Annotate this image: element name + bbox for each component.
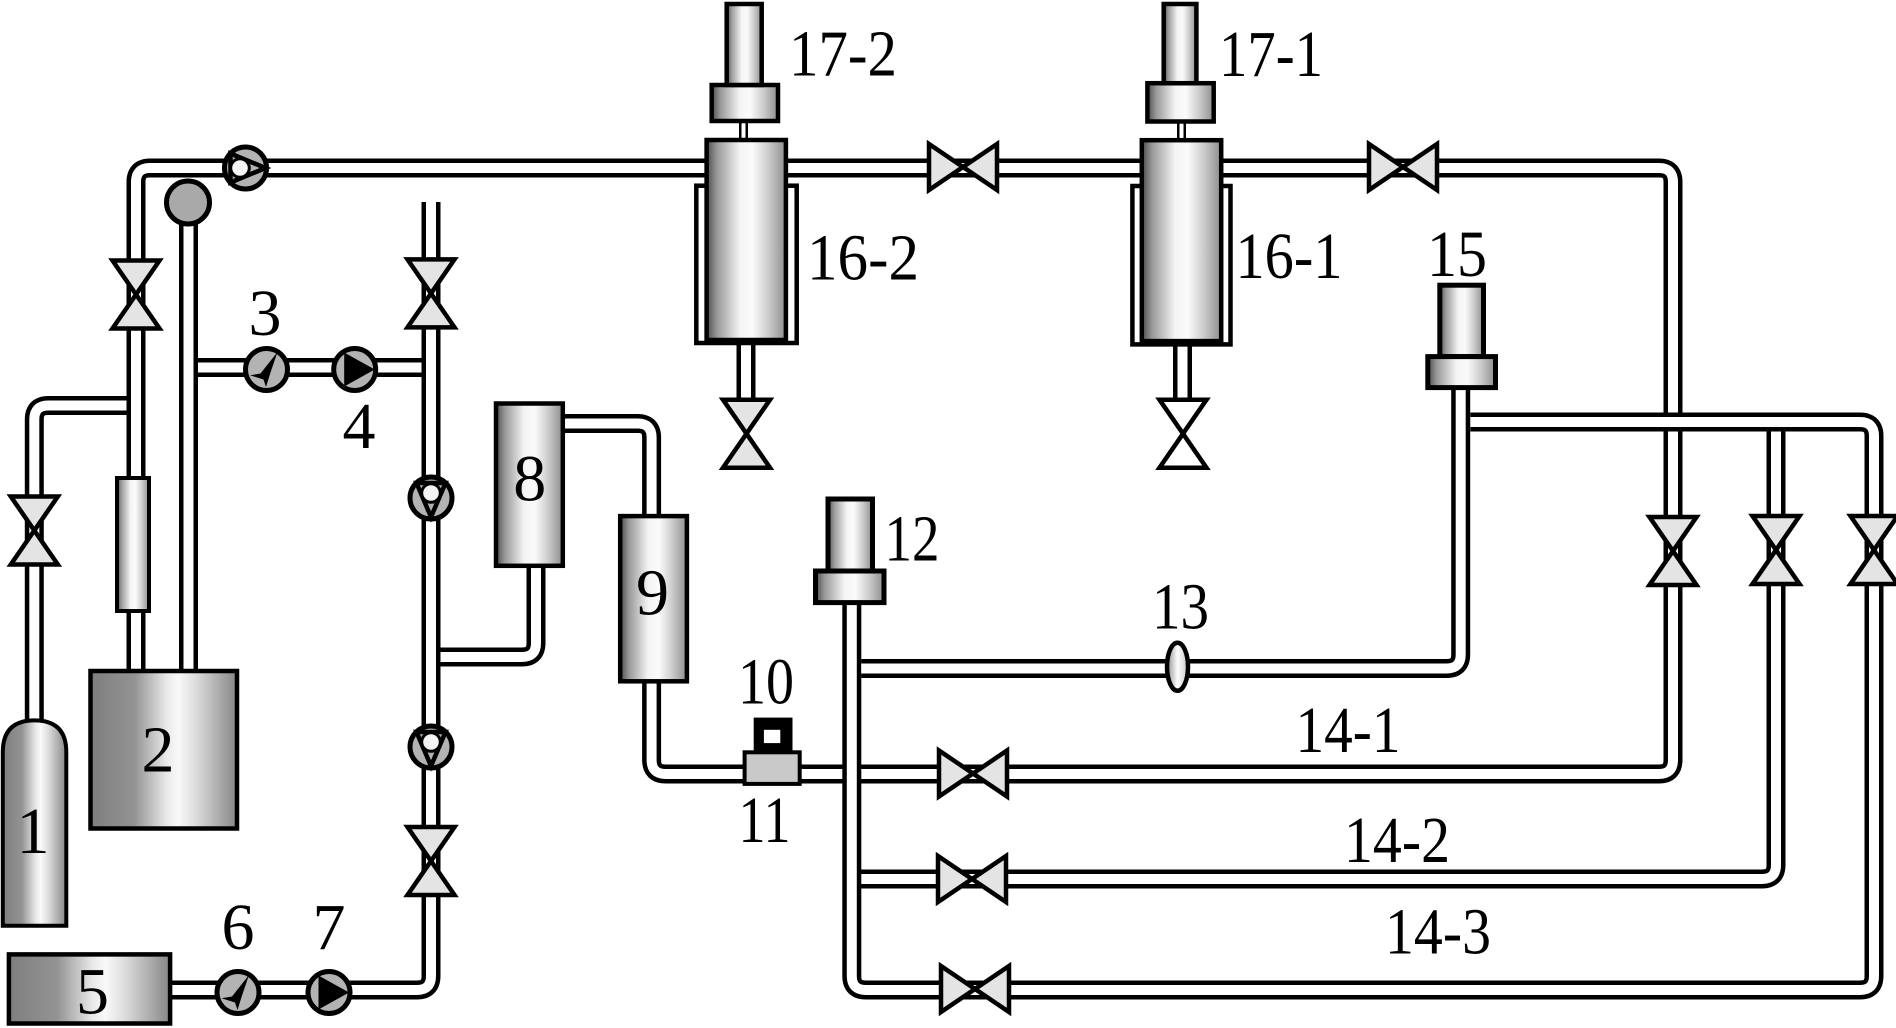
wire drain stub of reactor 16-1 <box>1173 330 1192 400</box>
plug 12 stem <box>828 499 873 571</box>
valve on line 14-1 <box>939 751 1007 797</box>
svg-text:16-1: 16-1 <box>1236 220 1343 293</box>
valve on riser x1874 <box>1851 516 1896 584</box>
plug 12 flange <box>816 571 885 603</box>
jacket of reactor 16-2 <box>696 186 796 343</box>
valve on line 14-3 <box>941 966 1009 1012</box>
wire drain stub of reactor 16-2 <box>737 330 756 400</box>
plug 15 stem <box>1440 285 1484 356</box>
svg-text:10: 10 <box>738 645 794 718</box>
valve on riser x1673 <box>1650 517 1697 585</box>
vessel 9 <box>620 516 687 681</box>
gray ball on tank 2 line <box>167 181 210 224</box>
svg-text:17-1: 17-1 <box>1219 18 1323 91</box>
svg-text:14-1: 14-1 <box>1296 694 1401 767</box>
sight glass on tank 2 feed <box>117 478 149 611</box>
cap of reactor 16-1 <box>1147 83 1213 121</box>
drain valve of reactor 16-1 <box>1160 400 1207 468</box>
svg-text:1: 1 <box>17 795 50 868</box>
wire column x431 from stub to vessel 5 <box>166 202 431 990</box>
svg-text:13: 13 <box>1152 571 1209 644</box>
check valve on top header <box>225 147 267 189</box>
svg-text:12: 12 <box>885 502 940 575</box>
wire 14-2 line <box>854 428 1776 879</box>
svg-text:17-2: 17-2 <box>789 18 897 91</box>
plug 15 flange <box>1428 357 1496 388</box>
reactor 16-1 body <box>1142 140 1221 341</box>
pump 4 <box>334 349 376 391</box>
wire main loop: tank 2, top header, drop right, 14-1 line to vessel 9 <box>136 168 1673 774</box>
svg-text:15: 15 <box>1427 218 1487 291</box>
sensor 10 <box>754 718 793 753</box>
pressure gauge 3 <box>246 349 288 391</box>
wire vessel 8 to vessel 9 <box>556 424 652 536</box>
jacket of reactor 16-1 <box>1132 186 1230 344</box>
svg-text:16-2: 16-2 <box>807 222 919 295</box>
block 11 <box>745 752 800 784</box>
svg-text:14-3: 14-3 <box>1385 895 1491 968</box>
tank 2 <box>91 671 238 829</box>
orifice 13 <box>1167 643 1188 691</box>
gas cylinder 1 <box>3 720 67 925</box>
check valve upper on column x431 <box>410 477 452 519</box>
valve right of reactor 16-1 <box>1369 144 1437 190</box>
valve between reactors <box>929 144 997 190</box>
svg-text:5: 5 <box>76 956 109 1028</box>
svg-text:9: 9 <box>636 557 669 630</box>
pressure gauge 6 <box>217 972 259 1014</box>
svg-text:4: 4 <box>343 390 376 463</box>
vessel 5 <box>9 954 170 1023</box>
valve on line 14-2 <box>938 856 1006 902</box>
cap of reactor 16-2 <box>712 85 778 121</box>
svg-text:6: 6 <box>222 891 255 964</box>
svg-text:3: 3 <box>249 277 282 350</box>
check valve lower on column x431 <box>410 726 452 768</box>
drain valve of reactor 16-2 <box>723 400 770 468</box>
stirrer shaft 17-1 <box>1164 4 1197 83</box>
svg-text:8: 8 <box>513 443 546 516</box>
valve on tank 2 feed <box>113 261 160 329</box>
valve on riser x1776 <box>1753 516 1800 584</box>
wire ball to tank 2 <box>179 214 198 695</box>
wire neck of reactor 16-2 <box>739 116 748 146</box>
svg-text:2: 2 <box>142 714 175 787</box>
vessel 8 <box>496 404 563 566</box>
wire from cylinder 1 up to node A <box>34 406 127 731</box>
svg-text:11: 11 <box>739 784 791 857</box>
wire riser 12, 14-3 line, right riser, top right header <box>852 422 1874 990</box>
reactor 16-2 body <box>707 140 786 340</box>
pump 7 <box>308 972 350 1014</box>
wire neck of reactor 16-1 <box>1177 116 1186 146</box>
svg-text:14-2: 14-2 <box>1344 804 1450 877</box>
wire gauge line 3-4 <box>193 358 424 377</box>
svg-text:7: 7 <box>313 891 346 964</box>
valve lower on column x431 <box>408 827 455 895</box>
valve top of column x431 <box>408 259 455 327</box>
valve on cylinder 1 line <box>11 497 58 565</box>
stirrer shaft 17-2 <box>727 4 762 85</box>
wire drain of vessel 8 <box>434 558 536 657</box>
wire 13 line and riser to plug 15 <box>861 382 1460 669</box>
